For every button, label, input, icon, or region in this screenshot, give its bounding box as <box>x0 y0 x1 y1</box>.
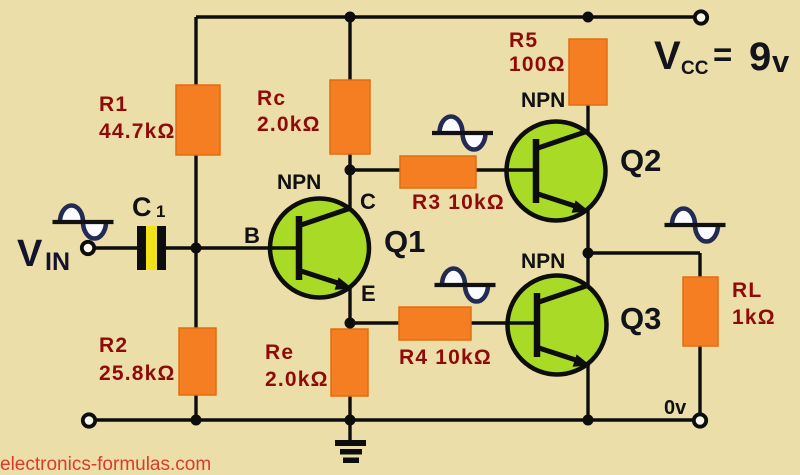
svg-text:44.7kΩ: 44.7kΩ <box>99 120 176 143</box>
capacitor C1 <box>137 226 166 270</box>
svg-text:CC: CC <box>681 58 709 79</box>
svg-text:Q1: Q1 <box>384 224 425 259</box>
label C1 <box>132 192 165 222</box>
ground <box>335 420 366 463</box>
transistor Q2 <box>505 122 606 221</box>
wire Q1 emitter through Re to bottom rail <box>348 287 351 420</box>
svg-text:R5: R5 <box>509 29 538 52</box>
node junction top R5 <box>583 12 594 23</box>
wire RL column <box>698 253 701 413</box>
node Q2 emitter junction <box>583 248 594 259</box>
source sine above R4 <box>435 269 496 302</box>
svg-text:R2: R2 <box>99 334 128 357</box>
transistor Q3 <box>506 276 607 375</box>
source sine output at RL <box>665 209 726 242</box>
source sine above R3 <box>432 117 493 150</box>
node B junction <box>191 243 202 254</box>
svg-text:1kΩ: 1kΩ <box>732 306 776 329</box>
resistor R3 <box>400 156 476 188</box>
label Vin <box>17 233 70 276</box>
wire Rc column to Q1 collector <box>348 17 351 209</box>
svg-text:NPN: NPN <box>521 89 565 112</box>
resistor Re <box>331 329 368 396</box>
wire left column (R1/R2 branch) <box>194 17 197 420</box>
svg-text:V: V <box>17 233 43 275</box>
svg-text:NPN: NPN <box>521 250 565 273</box>
svg-text:R1: R1 <box>99 93 128 116</box>
svg-text:RL: RL <box>732 279 762 302</box>
svg-text:R3 10kΩ: R3 10kΩ <box>412 191 505 214</box>
terminal Vin <box>82 242 94 254</box>
transistor Q1 <box>268 199 369 298</box>
svg-text:9: 9 <box>749 35 771 79</box>
wire Q3 emitter to bottom rail <box>586 363 589 420</box>
svg-text:25.8kΩ: 25.8kΩ <box>99 362 176 385</box>
node bottom ground junction <box>345 415 356 426</box>
svg-text:E: E <box>361 281 376 306</box>
svg-text:electronics-formulas.com: electronics-formulas.com <box>0 454 211 475</box>
svg-text:C: C <box>132 192 152 222</box>
node bottom Q3 junction <box>583 415 594 426</box>
wire Q3 collector up <box>586 253 589 287</box>
svg-text:v: v <box>772 44 790 79</box>
svg-text:V: V <box>654 34 681 78</box>
label Vcc = 9v <box>654 34 790 79</box>
node C junction <box>345 165 356 176</box>
terminal Vcc <box>695 11 707 23</box>
svg-text:1: 1 <box>156 202 165 221</box>
svg-text:IN: IN <box>45 248 70 276</box>
wire top rail Vcc <box>196 15 694 18</box>
svg-text:Q2: Q2 <box>620 143 661 178</box>
node bottom R2 junction <box>191 415 202 426</box>
svg-text:R4 10kΩ: R4 10kΩ <box>399 346 492 369</box>
resistor R2 <box>179 328 216 395</box>
svg-text:C: C <box>360 189 376 214</box>
svg-text:0v: 0v <box>664 397 687 419</box>
wire node C to R3 to Q2 base <box>350 168 537 171</box>
node E junction <box>345 318 356 329</box>
wire R5 to Q2 collector <box>586 104 589 133</box>
wire R4 row to Q3 base <box>350 321 537 324</box>
svg-text:100Ω: 100Ω <box>509 53 566 76</box>
svg-text:Q3: Q3 <box>620 301 661 336</box>
svg-text:2.0kΩ: 2.0kΩ <box>257 113 321 136</box>
svg-text:=: = <box>713 36 732 73</box>
resistor R4 <box>399 307 471 340</box>
resistor Rc <box>330 80 370 154</box>
svg-text:Re: Re <box>265 341 294 364</box>
terminal 0v <box>694 414 706 426</box>
svg-text:2.0kΩ: 2.0kΩ <box>265 368 329 391</box>
resistor R5 <box>569 39 607 105</box>
resistor RL <box>683 277 718 346</box>
svg-text:B: B <box>244 223 260 248</box>
terminal bottom-left <box>83 414 95 426</box>
source sine input Vin <box>53 206 114 239</box>
svg-text:Rc: Rc <box>257 87 286 110</box>
node junction top Rc <box>345 12 356 23</box>
resistor R1 <box>176 85 220 155</box>
wire Q2 emitter down <box>586 210 589 253</box>
svg-text:NPN: NPN <box>277 171 321 194</box>
wire Vin to Q1 base <box>94 246 301 249</box>
wire emitter junction to RL branch <box>588 251 700 254</box>
wire bottom rail 0v <box>96 418 694 421</box>
